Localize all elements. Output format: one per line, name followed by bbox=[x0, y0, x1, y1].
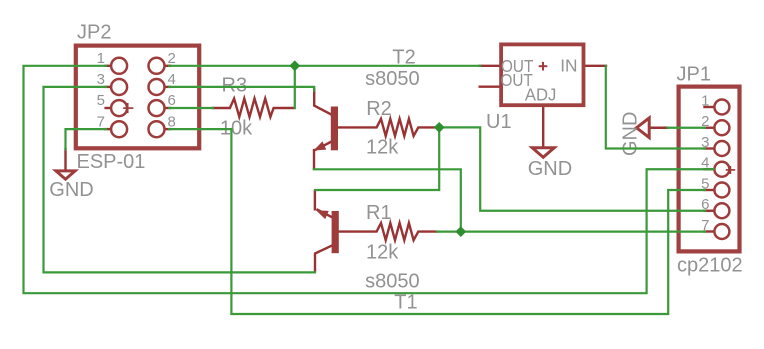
svg-text:12k: 12k bbox=[366, 241, 399, 263]
svg-text:1: 1 bbox=[97, 50, 105, 67]
svg-text:GND: GND bbox=[528, 158, 572, 180]
svg-text:12k: 12k bbox=[366, 136, 399, 158]
svg-text:4: 4 bbox=[168, 71, 176, 88]
svg-text:5: 5 bbox=[97, 92, 105, 109]
svg-text:U1: U1 bbox=[486, 111, 512, 133]
svg-text:JP1: JP1 bbox=[677, 63, 711, 85]
svg-text:R2: R2 bbox=[366, 98, 392, 120]
svg-text:1: 1 bbox=[701, 92, 709, 109]
svg-text:2: 2 bbox=[168, 50, 176, 67]
svg-text:JP2: JP2 bbox=[77, 22, 111, 44]
svg-text:s8050: s8050 bbox=[365, 271, 420, 293]
svg-text:T1: T1 bbox=[394, 292, 417, 314]
svg-text:R3: R3 bbox=[222, 75, 248, 97]
svg-text:GND: GND bbox=[49, 179, 93, 201]
svg-text:cp2102: cp2102 bbox=[677, 254, 743, 276]
svg-text:8: 8 bbox=[168, 113, 176, 130]
svg-text:IN: IN bbox=[560, 55, 577, 75]
svg-text:ADJ: ADJ bbox=[525, 84, 557, 104]
svg-text:s8050: s8050 bbox=[365, 68, 420, 90]
svg-text:6: 6 bbox=[168, 92, 176, 109]
svg-text:7: 7 bbox=[97, 113, 105, 130]
svg-text:R1: R1 bbox=[366, 202, 392, 224]
svg-text:3: 3 bbox=[97, 71, 105, 88]
svg-text:ESP-01: ESP-01 bbox=[77, 151, 146, 173]
